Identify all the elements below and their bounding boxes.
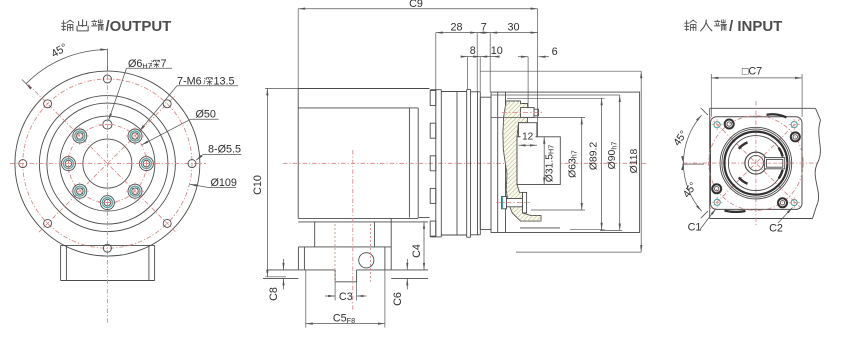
svg-text:C8: C8 (268, 287, 280, 301)
coupling bore (517, 137, 560, 185)
extension lines inside adapter plate (480, 71, 641, 252)
motor adapter plate (section outline) (491, 92, 640, 232)
45 degree dimension arc (output) (22, 42, 108, 90)
svg-text:C10: C10 (252, 175, 264, 195)
svg-text:10: 10 (491, 45, 503, 57)
leader 7-M6 deep13.5 (139, 76, 238, 132)
bolt circle dia 50 (red dash) (68, 125, 146, 203)
mounting neck (315, 218, 392, 247)
output flange concentric circles (15, 71, 200, 256)
center line (red) of side view (283, 162, 648, 164)
4x mounting bolt holes (input) (712, 120, 800, 208)
dim C10 (252, 88, 298, 276)
dim dia63h7 (567, 117, 583, 210)
flange ring 3 (467, 89, 471, 237)
svg-text:7: 7 (161, 58, 167, 70)
dim dia90h7 (607, 95, 621, 231)
coupling keyway slot (519, 123, 537, 137)
dims 28 / 7 / 30 (436, 21, 538, 92)
mounting surface lines (263, 270, 428, 279)
svg-text:12: 12 (522, 131, 534, 142)
dim 12 (keyway) (519, 131, 537, 147)
input flange square (711, 117, 803, 210)
leader dia6H7 deep7 (109, 58, 172, 120)
dim dia118 (629, 71, 643, 252)
input shaft with keyway (745, 152, 767, 174)
shaft key slot (762, 158, 788, 169)
7x M6 tapped holes (59, 127, 155, 212)
svg-text:C1: C1 (688, 222, 702, 234)
clamp ring (thick) (724, 132, 787, 195)
dia6 H7 dowel hole (99, 120, 115, 129)
input bolt circle (red dash) (709, 116, 804, 211)
svg-text:C4: C4 (411, 244, 423, 258)
svg-text:C6: C6 (392, 292, 404, 306)
hidden hole lines (red) in foot (335, 224, 371, 282)
coupling hub section (hatched) (294, 90, 782, 230)
leader dia109 (190, 177, 237, 189)
dim dia89.2 (588, 98, 603, 229)
dim C9 (298, 0, 537, 137)
45 degree dimension arcs (input) (671, 108, 708, 218)
8x dia5.5 through holes (19, 75, 196, 252)
pilot spigot dia90 (480, 97, 491, 229)
4x dowel holes C1/C2 (teal) (712, 119, 800, 208)
clamp ring inner (728, 136, 783, 191)
leader dia50 (142, 109, 219, 145)
dim dia31.5H7 (543, 137, 556, 185)
dim 6 (518, 46, 558, 108)
dim C4 (411, 222, 425, 270)
dim C8 (268, 259, 285, 301)
leader 8-dia5.5 (196, 144, 241, 161)
motor plate behind (broken view) (710, 108, 821, 218)
gearbox housing body (side section) (298, 89, 429, 222)
flange pilot circles (720, 127, 792, 199)
dim C6 (392, 259, 409, 306)
svg-text:/ INPUT: / INPUT (729, 18, 782, 35)
svg-text:Ø50: Ø50 (196, 109, 216, 121)
coupling slots (thick arcs) (739, 142, 748, 183)
svg-text:C9: C9 (409, 0, 423, 10)
svg-text:Ø109: Ø109 (211, 177, 237, 189)
foot hole center line (red) (352, 150, 354, 312)
output flange base block (61, 245, 155, 280)
title: output end (62, 18, 172, 35)
svg-text:Ø31.5H7: Ø31.5H7 (544, 145, 555, 183)
svg-text:Ø118: Ø118 (629, 148, 640, 173)
svg-text:Ø90h7: Ø90h7 (607, 142, 618, 170)
svg-text:7-M6: 7-M6 (177, 76, 202, 88)
flange ring 1 (430, 90, 441, 237)
bottom clamp screw (496, 192, 530, 213)
dim square C7 (711, 66, 802, 117)
svg-text:C2: C2 (769, 223, 783, 235)
svg-text:Ø89.2: Ø89.2 (588, 142, 599, 171)
input center lines (red) (683, 101, 818, 226)
title: input end (685, 18, 783, 35)
svg-text:28: 28 (450, 21, 462, 33)
screw boss column (430, 91, 436, 237)
svg-text:C3: C3 (339, 291, 353, 303)
bolt circle dia 109 (red dash) (23, 79, 192, 248)
dim C3 (325, 282, 367, 303)
mounting foot block (298, 247, 391, 270)
label C1 (688, 209, 716, 234)
svg-text:/OUTPUT: /OUTPUT (106, 18, 172, 35)
top clamp screw (502, 108, 544, 118)
svg-text:□C7: □C7 (742, 66, 762, 78)
locating tenon (335, 270, 357, 282)
flange ring 2 (wide band) (441, 92, 466, 236)
svg-text:8: 8 (470, 45, 476, 57)
svg-text:8-Ø5.5: 8-Ø5.5 (208, 144, 241, 156)
dims 8 / 10 (461, 45, 503, 92)
flange ring 4 (471, 92, 481, 235)
center lines (red) of output view (10, 66, 206, 323)
svg-text:Ø63h7: Ø63h7 (567, 150, 578, 178)
label C2 (769, 208, 792, 235)
dim C5 F8 (306, 270, 385, 328)
svg-text:30: 30 (507, 21, 519, 33)
foot bolt hole (359, 253, 374, 268)
hub hidden bottom line (520, 227, 560, 229)
svg-text:7: 7 (481, 21, 487, 33)
collar slit marks (thick) (779, 148, 783, 179)
svg-text:13.5: 13.5 (214, 76, 235, 88)
dia118 circle edge arcs (thick) (725, 114, 787, 212)
svg-text:6: 6 (552, 46, 558, 58)
